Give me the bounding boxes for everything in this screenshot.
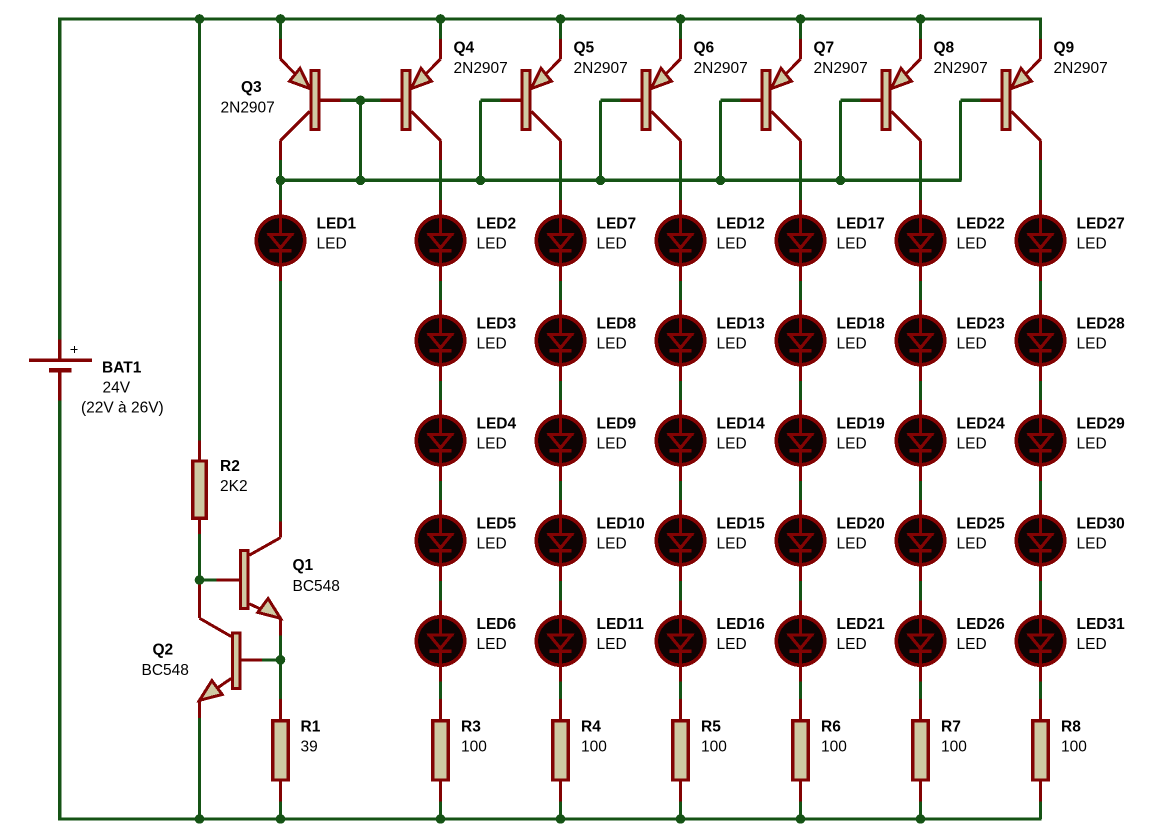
svg-text:100: 100 bbox=[821, 739, 847, 756]
svg-text:Q6: Q6 bbox=[694, 40, 715, 57]
svg-text:LED15: LED15 bbox=[717, 515, 766, 532]
svg-text:LED: LED bbox=[957, 435, 987, 452]
svg-text:LED: LED bbox=[1077, 636, 1107, 653]
svg-text:BC548: BC548 bbox=[142, 662, 189, 679]
svg-text:LED: LED bbox=[957, 335, 987, 352]
svg-text:LED11: LED11 bbox=[597, 616, 645, 633]
svg-text:Q5: Q5 bbox=[574, 40, 595, 57]
svg-text:Q8: Q8 bbox=[934, 40, 955, 57]
svg-text:39: 39 bbox=[301, 739, 318, 756]
svg-text:2N2907: 2N2907 bbox=[934, 60, 988, 77]
svg-text:R5: R5 bbox=[701, 718, 721, 735]
svg-text:Q3: Q3 bbox=[241, 79, 262, 96]
svg-text:R1: R1 bbox=[301, 718, 321, 735]
svg-text:LED4: LED4 bbox=[477, 415, 517, 432]
svg-text:LED7: LED7 bbox=[597, 215, 637, 232]
svg-text:100: 100 bbox=[1061, 739, 1087, 756]
svg-text:LED: LED bbox=[1077, 435, 1107, 452]
svg-text:LED8: LED8 bbox=[597, 315, 637, 332]
svg-text:LED16: LED16 bbox=[717, 616, 766, 633]
svg-text:LED22: LED22 bbox=[957, 215, 1005, 232]
svg-text:LED13: LED13 bbox=[717, 315, 766, 332]
svg-text:LED: LED bbox=[317, 235, 347, 252]
svg-text:LED17: LED17 bbox=[837, 215, 885, 232]
svg-text:LED14: LED14 bbox=[717, 415, 766, 432]
svg-text:LED: LED bbox=[597, 435, 627, 452]
svg-text:LED3: LED3 bbox=[477, 315, 517, 332]
svg-text:LED: LED bbox=[477, 636, 507, 653]
svg-text:LED26: LED26 bbox=[957, 616, 1006, 633]
svg-text:LED: LED bbox=[837, 435, 867, 452]
svg-text:2N2907: 2N2907 bbox=[1054, 60, 1108, 77]
svg-text:LED: LED bbox=[477, 535, 507, 552]
svg-text:LED20: LED20 bbox=[837, 515, 885, 532]
svg-text:LED12: LED12 bbox=[717, 215, 765, 232]
svg-text:LED: LED bbox=[717, 435, 747, 452]
svg-text:LED23: LED23 bbox=[957, 315, 1006, 332]
svg-text:LED19: LED19 bbox=[837, 415, 886, 432]
svg-text:LED: LED bbox=[1077, 535, 1107, 552]
svg-text:LED: LED bbox=[717, 535, 747, 552]
svg-text:LED: LED bbox=[597, 535, 627, 552]
svg-text:100: 100 bbox=[941, 739, 967, 756]
svg-text:LED28: LED28 bbox=[1077, 315, 1126, 332]
svg-text:LED: LED bbox=[717, 335, 747, 352]
svg-text:LED: LED bbox=[1077, 235, 1107, 252]
svg-text:100: 100 bbox=[701, 739, 727, 756]
svg-text:LED25: LED25 bbox=[957, 515, 1006, 532]
svg-text:LED: LED bbox=[477, 435, 507, 452]
svg-text:LED1: LED1 bbox=[317, 215, 357, 232]
svg-text:Q9: Q9 bbox=[1054, 40, 1075, 57]
svg-text:LED: LED bbox=[717, 235, 747, 252]
svg-text:2N2907: 2N2907 bbox=[694, 60, 748, 77]
svg-text:(22V à 26V): (22V à 26V) bbox=[81, 399, 164, 416]
svg-text:LED30: LED30 bbox=[1077, 515, 1125, 532]
svg-text:Q2: Q2 bbox=[153, 642, 174, 659]
svg-text:LED: LED bbox=[957, 235, 987, 252]
svg-text:LED29: LED29 bbox=[1077, 415, 1126, 432]
svg-text:2K2: 2K2 bbox=[220, 478, 248, 495]
svg-text:LED: LED bbox=[477, 235, 507, 252]
svg-text:R2: R2 bbox=[220, 458, 240, 475]
svg-text:R7: R7 bbox=[941, 718, 961, 735]
svg-text:2N2907: 2N2907 bbox=[454, 60, 508, 77]
svg-text:R6: R6 bbox=[821, 718, 841, 735]
svg-text:Q7: Q7 bbox=[814, 40, 835, 57]
svg-text:LED: LED bbox=[477, 335, 507, 352]
svg-text:LED: LED bbox=[957, 636, 987, 653]
svg-text:2N2907: 2N2907 bbox=[221, 99, 275, 116]
svg-text:100: 100 bbox=[461, 739, 487, 756]
svg-text:100: 100 bbox=[581, 739, 607, 756]
svg-text:LED6: LED6 bbox=[477, 616, 517, 633]
svg-text:BAT1: BAT1 bbox=[102, 360, 142, 377]
svg-text:LED: LED bbox=[837, 235, 867, 252]
svg-text:LED: LED bbox=[837, 335, 867, 352]
svg-text:LED18: LED18 bbox=[837, 315, 886, 332]
svg-text:BC548: BC548 bbox=[293, 578, 340, 595]
svg-text:R3: R3 bbox=[461, 718, 481, 735]
svg-text:LED: LED bbox=[837, 636, 867, 653]
svg-text:LED: LED bbox=[837, 535, 867, 552]
svg-text:LED10: LED10 bbox=[597, 515, 645, 532]
svg-text:LED: LED bbox=[597, 235, 627, 252]
svg-text:2N2907: 2N2907 bbox=[814, 60, 868, 77]
svg-text:R4: R4 bbox=[581, 718, 601, 735]
svg-text:LED9: LED9 bbox=[597, 415, 637, 432]
svg-text:LED24: LED24 bbox=[957, 415, 1006, 432]
svg-text:Q4: Q4 bbox=[454, 40, 475, 57]
svg-text:LED31: LED31 bbox=[1077, 616, 1126, 633]
svg-text:Q1: Q1 bbox=[293, 557, 314, 574]
svg-text:LED21: LED21 bbox=[837, 616, 886, 633]
svg-text:LED: LED bbox=[957, 535, 987, 552]
svg-text:LED: LED bbox=[597, 335, 627, 352]
svg-text:LED: LED bbox=[1077, 335, 1107, 352]
svg-text:LED27: LED27 bbox=[1077, 215, 1125, 232]
svg-text:LED: LED bbox=[597, 636, 627, 653]
svg-text:LED: LED bbox=[717, 636, 747, 653]
svg-text:R8: R8 bbox=[1061, 718, 1081, 735]
svg-text:24V: 24V bbox=[103, 380, 131, 397]
svg-text:2N2907: 2N2907 bbox=[574, 60, 628, 77]
svg-text:LED2: LED2 bbox=[477, 215, 517, 232]
svg-text:LED5: LED5 bbox=[477, 515, 517, 532]
